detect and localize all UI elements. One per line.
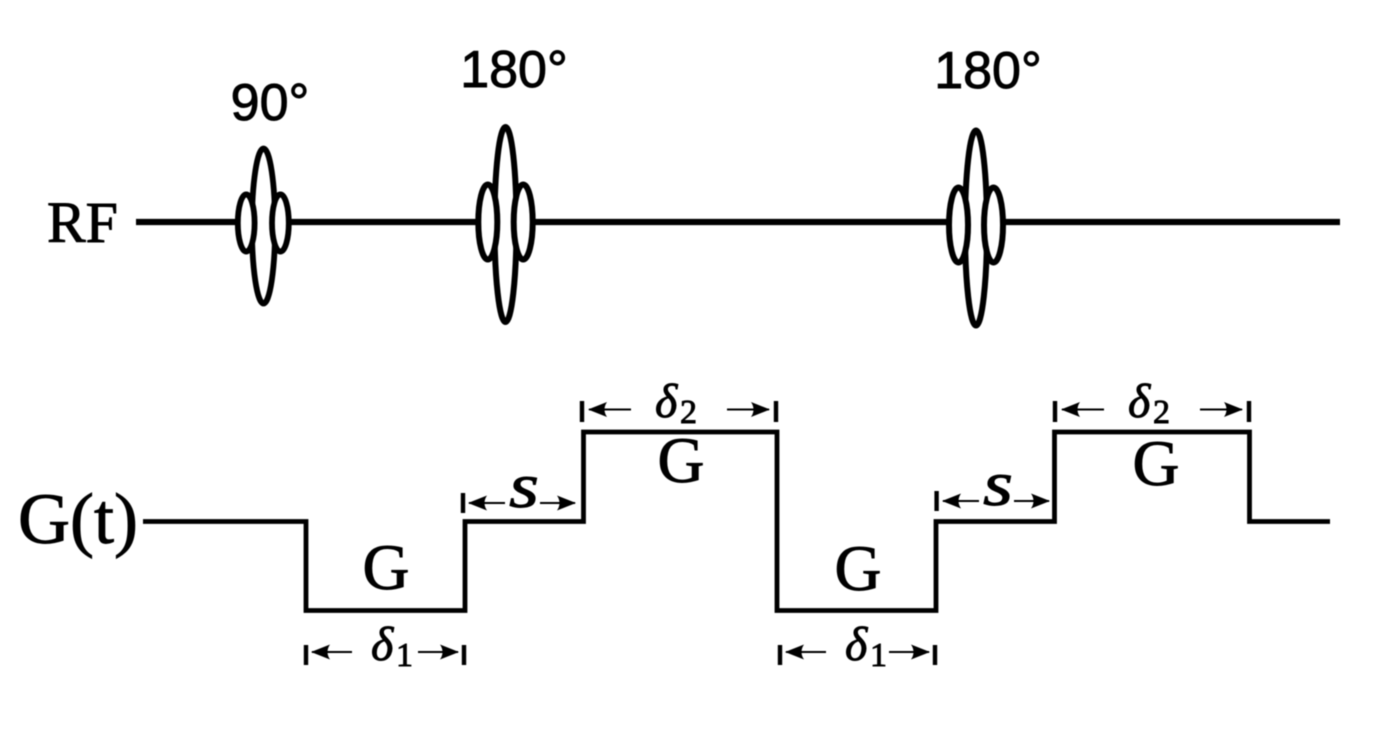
svg-text:δ: δ [1128,375,1151,428]
svg-text:G: G [1133,428,1180,500]
svg-text:RF: RF [47,190,118,255]
svg-text:2: 2 [680,394,697,431]
svg-text:180°: 180° [934,42,1042,100]
svg-text:δ: δ [845,618,868,671]
svg-text:180°: 180° [460,41,568,99]
svg-text:G: G [835,533,882,605]
svg-text:1: 1 [870,637,887,674]
svg-text:2: 2 [1153,394,1170,431]
svg-text:G: G [658,425,705,497]
svg-text:1: 1 [396,637,413,674]
svg-text:δ: δ [371,618,394,671]
svg-text:δ: δ [655,375,678,428]
svg-text:s: s [983,448,1013,519]
svg-text:s: s [509,450,539,521]
svg-text:G(t): G(t) [18,479,138,559]
svg-text:90°: 90° [231,74,310,132]
svg-text:G: G [363,532,410,604]
